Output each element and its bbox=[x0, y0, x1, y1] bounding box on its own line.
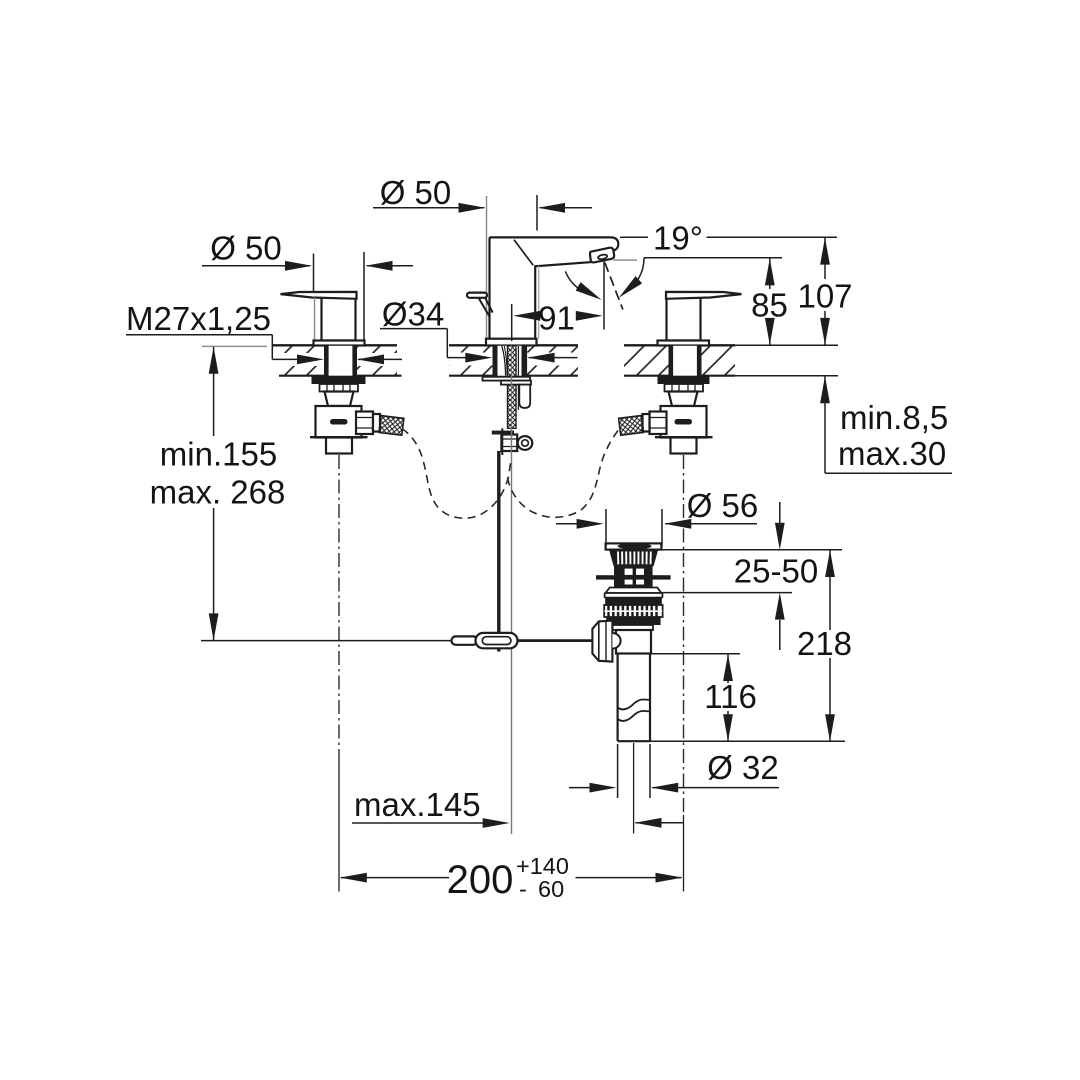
left side valve handle blade bbox=[281, 292, 357, 299]
faucet threaded stud bbox=[508, 346, 517, 429]
dimension 91 bbox=[512, 262, 604, 342]
faucet side lever tab bbox=[467, 293, 487, 298]
faucet mounting bolt cylinder bbox=[519, 385, 530, 408]
left side valve centerline bbox=[338, 455, 340, 755]
faucet centerline bbox=[511, 346, 513, 835]
faucet extension line gray left bbox=[486, 196, 488, 338]
lever adjustment link bbox=[476, 633, 518, 648]
left side valve ribbed collar bbox=[320, 384, 359, 392]
right side valve body bbox=[661, 406, 707, 438]
dimension 218 bbox=[825, 550, 835, 741]
right side valve shank hole white bbox=[673, 346, 697, 376]
svg-text:85: 85 bbox=[751, 287, 788, 324]
drain centerline extension bbox=[633, 743, 635, 834]
left side valve handle post bbox=[322, 295, 356, 341]
svg-text:max.30: max.30 bbox=[838, 435, 946, 472]
dimension 19 degrees leaders bbox=[614, 237, 838, 260]
faucet stud side line bbox=[517, 346, 519, 410]
tailpipe break waves bbox=[618, 699, 650, 709]
left side valve bottom plate bbox=[310, 436, 368, 438]
right side valve locknut bbox=[658, 376, 710, 384]
countertop deck center segment hatch bbox=[449, 347, 578, 376]
drain cage section bbox=[614, 566, 653, 588]
svg-text:Ø 32: Ø 32 bbox=[707, 749, 779, 786]
right side valve base flange bbox=[658, 341, 710, 346]
tailpipe bottom edge and reference line bbox=[618, 740, 650, 742]
right side valve shank wall right bbox=[697, 346, 702, 376]
deck top surface lines bbox=[273, 344, 735, 346]
svg-text:min.8,5: min.8,5 bbox=[840, 399, 948, 436]
svg-text:91: 91 bbox=[538, 300, 575, 337]
svg-text:Ø 50: Ø 50 bbox=[210, 230, 282, 267]
left side valve hose hex fitting bbox=[356, 412, 373, 435]
faucet clamp knob bbox=[518, 436, 533, 450]
drain waste body bbox=[616, 630, 651, 654]
dimension min155 max268 bbox=[202, 346, 267, 640]
faucet shank hole white bbox=[498, 346, 522, 376]
dimension Ø34 leader bbox=[380, 329, 578, 363]
dimension 85 bbox=[765, 258, 775, 345]
pop-up lever rod bbox=[452, 639, 592, 642]
right side valve neck bbox=[669, 392, 698, 407]
right side valve ribbed collar bbox=[665, 384, 704, 392]
right side valve tailpiece bbox=[671, 438, 697, 454]
faucet shank wall right bbox=[522, 346, 528, 376]
drain knurled skirt bbox=[610, 550, 658, 566]
faucet right shading line bbox=[538, 266, 540, 339]
right side valve body slot bbox=[675, 419, 693, 425]
dimension min 8,5 max 30 bbox=[820, 376, 952, 473]
faucet base flange bbox=[486, 339, 537, 346]
dimension Ø56 bbox=[556, 509, 757, 547]
left side valve base flange bbox=[314, 341, 365, 346]
svg-text:107: 107 bbox=[797, 278, 852, 315]
19 degree angle arc left with arrow bbox=[565, 271, 596, 296]
left side valve neck bbox=[325, 392, 354, 407]
dimension max145 bbox=[352, 818, 684, 828]
right side valve handle post bbox=[667, 295, 701, 341]
19 degree spray direction dashed line bbox=[605, 263, 623, 310]
dimension 116 bbox=[651, 654, 740, 741]
svg-text:max. 268: max. 268 bbox=[150, 474, 286, 511]
svg-text:Ø 50: Ø 50 bbox=[380, 174, 452, 211]
min155 bottom reference line bbox=[201, 640, 452, 642]
svg-text:25-50: 25-50 bbox=[734, 553, 818, 590]
left side valve body bbox=[316, 406, 362, 438]
drain knurled ring bbox=[604, 605, 662, 617]
right side valve hose hex fitting bbox=[650, 412, 667, 435]
faucet body outline bbox=[490, 237, 619, 339]
lever end cap bbox=[452, 636, 478, 644]
right side valve hose collar bbox=[643, 414, 650, 432]
dimension 200 bbox=[340, 873, 683, 883]
right side valve handle blade bbox=[666, 292, 742, 299]
faucet spring washer curves bbox=[502, 346, 506, 376]
dimension M27x1,25 leader bbox=[126, 335, 402, 365]
svg-text:Ø 56: Ø 56 bbox=[687, 487, 759, 524]
svg-text:218: 218 bbox=[797, 625, 852, 662]
left side valve locknut bbox=[312, 376, 366, 384]
right side valve centerline bbox=[683, 455, 685, 815]
svg-text:200: 200 bbox=[447, 858, 514, 902]
svg-text:M27x1,25: M27x1,25 bbox=[126, 300, 271, 337]
drain plug dome bbox=[606, 543, 662, 549]
svg-text:116: 116 bbox=[704, 678, 757, 715]
left side valve shank wall left bbox=[324, 346, 329, 376]
dimension Ø50 left bbox=[202, 252, 413, 340]
dimension 107 bbox=[820, 238, 830, 345]
svg-text:19°: 19° bbox=[653, 220, 703, 257]
left side valve shank hole white bbox=[329, 346, 353, 376]
countertop deck right segment hatch bbox=[624, 347, 735, 376]
svg-text:- 60: - 60 bbox=[519, 876, 564, 902]
drain cross pin bbox=[596, 575, 671, 579]
dimension 25-50 references bbox=[662, 502, 843, 650]
drain flare bbox=[606, 588, 662, 594]
left side valve shank wall right bbox=[352, 346, 357, 376]
dimension Ø50 center bbox=[373, 195, 592, 231]
pop-up rod bbox=[497, 451, 500, 652]
left flexible hose dashed bbox=[402, 429, 511, 519]
right side valve shank wall left bbox=[669, 346, 674, 376]
dimension Ø32 bbox=[569, 744, 779, 798]
faucet pop-up rod clamp body bbox=[501, 435, 517, 452]
right flexible hose dashed bbox=[507, 431, 618, 518]
drain black band lower bbox=[606, 617, 660, 625]
faucet horseshoe washer bbox=[483, 377, 531, 381]
left side valve braided hose end bbox=[379, 416, 404, 436]
drain tailpipe bbox=[616, 654, 618, 741]
19 degree angle arc right with arrow bbox=[624, 258, 644, 293]
drain black band upper bbox=[605, 598, 662, 605]
faucet pop-up rod clamp bar bbox=[492, 431, 514, 435]
right side valve bottom plate bbox=[655, 436, 713, 438]
faucet locknut band bbox=[501, 381, 531, 385]
svg-text:min.155: min.155 bbox=[160, 436, 277, 473]
countertop deck left segment hatch bbox=[273, 347, 397, 376]
faucet stud lower rod bbox=[501, 428, 503, 455]
deck bottom lines bbox=[279, 375, 735, 377]
svg-text:max.145: max.145 bbox=[354, 786, 481, 823]
left side valve body slot bbox=[330, 419, 348, 425]
left side valve hose collar bbox=[373, 414, 380, 432]
left side valve post shading line bbox=[314, 298, 316, 341]
drain white ring bbox=[605, 593, 663, 598]
faucet inner diagonal line bbox=[514, 240, 533, 266]
right side valve braided hose end bbox=[619, 416, 644, 436]
drain body step bbox=[613, 625, 653, 630]
deck bottom extension line to dimension min 8,5 bbox=[735, 375, 838, 377]
faucet aerator outlet bbox=[590, 248, 614, 263]
left side valve tailpiece bbox=[326, 438, 352, 454]
faucet shank wall left bbox=[493, 346, 498, 376]
drain ball joint nut bbox=[592, 621, 612, 662]
deck top extension line to dimension 107 bbox=[735, 344, 838, 346]
svg-text:Ø34: Ø34 bbox=[382, 296, 444, 333]
